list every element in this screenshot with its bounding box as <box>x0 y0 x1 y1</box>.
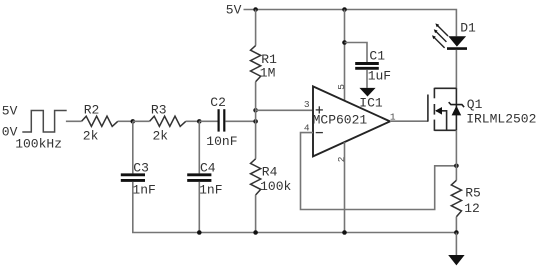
op-amp minus symbol <box>316 132 323 134</box>
wire LED to Q1 drain <box>455 50 457 89</box>
svg-text:D1: D1 <box>460 20 476 35</box>
junction top rail / pin5 <box>342 7 347 12</box>
svg-text:C3: C3 <box>133 161 149 176</box>
op-amp U IC1 MCP6021 triangle <box>313 86 390 156</box>
svg-text:C2: C2 <box>210 95 226 110</box>
Q1 bulk arrowhead <box>435 107 442 115</box>
capacitor C3 <box>121 175 145 181</box>
ground under C1 <box>359 88 375 97</box>
op-amp plus symbol <box>316 106 323 113</box>
svg-text:R4: R4 <box>262 165 278 180</box>
wire op-amp pin3 <box>256 109 313 111</box>
wire R5 to bottom rail <box>455 217 457 233</box>
junction C1 branch <box>342 40 347 45</box>
junction rail / pin2 <box>342 230 347 235</box>
svg-text:10nF: 10nF <box>206 134 237 149</box>
wire 5V top rail <box>244 10 457 37</box>
wire C3 top lead <box>132 121 134 173</box>
D1 light arrow 1 <box>435 23 448 36</box>
junction top rail / R1 <box>253 7 258 12</box>
junction rail / R5-ground <box>454 230 459 235</box>
wire C1 bottom lead <box>366 70 368 88</box>
ground symbol bottom right <box>448 255 464 265</box>
LED D1 <box>447 36 467 48</box>
junction R1 bottom / op-amp input <box>253 108 258 113</box>
node C junction (C2/R1/R4) <box>253 119 258 124</box>
wire op-amp pin5 <box>344 10 346 101</box>
junction rail / R4 <box>253 230 258 235</box>
wire C4 bottom lead <box>198 182 200 233</box>
svg-text:5V: 5V <box>226 2 242 17</box>
Q1 body diode <box>449 102 464 115</box>
wire Q1 source to R5 <box>455 130 457 180</box>
resistor R1 <box>251 46 261 82</box>
capacitor C1 <box>355 64 379 69</box>
D1 light arrow 2 <box>434 29 447 42</box>
svg-text:2k: 2k <box>153 128 169 143</box>
D1 light arrow 3 <box>432 35 445 48</box>
svg-text:IRLML2502: IRLML2502 <box>466 111 536 126</box>
svg-text:4: 4 <box>304 122 310 133</box>
svg-text:3: 3 <box>304 99 310 110</box>
wire node A to R3 <box>133 120 150 122</box>
junction feedback / source <box>454 164 459 169</box>
wire node B to C2 <box>199 120 217 122</box>
wire C1 branch <box>345 43 368 63</box>
svg-text:2: 2 <box>336 156 347 162</box>
wire R4 bottom to rail <box>255 195 257 233</box>
svg-text:Q1: Q1 <box>467 97 483 112</box>
svg-text:MCP6021: MCP6021 <box>313 113 368 128</box>
resistor R3 <box>150 116 186 126</box>
wire R3 to node B <box>186 120 200 122</box>
svg-text:1nF: 1nF <box>199 183 222 198</box>
capacitor C4 <box>187 175 211 181</box>
svg-text:1nF: 1nF <box>132 183 155 198</box>
svg-text:1uF: 1uF <box>368 69 391 84</box>
svg-text:R3: R3 <box>151 102 167 117</box>
wire rail to ground <box>455 233 457 256</box>
wire input to R2 <box>66 120 82 122</box>
svg-text:C4: C4 <box>200 161 216 176</box>
wire op-amp pin2 to bottom rail <box>344 142 346 232</box>
square wave source symbol <box>22 111 66 133</box>
svg-text:5V: 5V <box>2 104 18 119</box>
wire op-amp output to Q1 gate <box>390 120 428 122</box>
node A junction <box>131 119 136 124</box>
wire R2 to node A <box>118 120 133 122</box>
svg-text:5: 5 <box>336 84 347 90</box>
svg-text:C1: C1 <box>369 48 385 63</box>
capacitor C2 <box>219 109 225 131</box>
resistor R2 <box>82 116 118 126</box>
svg-text:R5: R5 <box>465 186 481 201</box>
wire C2 to node C <box>225 120 255 122</box>
wire C4 top lead <box>198 121 200 173</box>
junction rail / C4 <box>197 230 202 235</box>
svg-text:12: 12 <box>464 201 480 216</box>
wire R1 top lead <box>255 10 257 46</box>
wire node C to R4 <box>255 121 257 159</box>
node B junction <box>197 119 202 124</box>
resistor R5 <box>451 180 461 216</box>
resistor R4 <box>251 159 261 195</box>
svg-text:100kHz: 100kHz <box>15 136 62 151</box>
wire feedback pin4 loop <box>301 133 457 210</box>
wire bottom rail <box>133 182 457 233</box>
transistor Q1 MOSFET <box>428 88 457 131</box>
svg-text:1M: 1M <box>260 66 276 81</box>
wire R1 bottom to node <box>255 82 257 122</box>
svg-text:2k: 2k <box>83 128 99 143</box>
svg-text:R2: R2 <box>84 102 100 117</box>
svg-text:100k: 100k <box>260 179 291 194</box>
